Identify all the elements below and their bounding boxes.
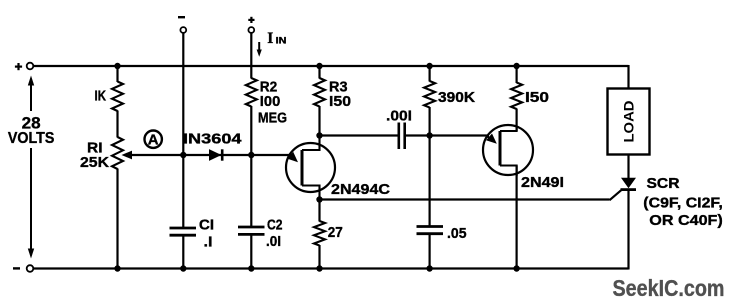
- wire 390K node to UJT2 emitter: [430, 134, 489, 136]
- svg-text:.00I: .00I: [386, 108, 412, 124]
- U1 base2 lead: [302, 136, 320, 151]
- node A wire (R1 wiper to UJT1 emitter): [127, 154, 292, 156]
- terminal circle - left: [27, 265, 34, 272]
- wire SCR gate diagonal: [610, 190, 622, 200]
- wire + terminal down to R2: [250, 33, 252, 79]
- junction top rail / 1K: [114, 63, 120, 69]
- wire C2 to bottom rail: [250, 234, 252, 268]
- svg-text:.I: .I: [204, 234, 213, 250]
- wire node A to C1: [182, 155, 184, 228]
- wire R2 to node A wire: [250, 106, 252, 155]
- junction bottom rail / UJT2 B1: [513, 265, 519, 271]
- svg-text:I00: I00: [260, 94, 281, 110]
- wire node A to C2: [250, 155, 252, 227]
- wire .001 cap to 390K node: [406, 134, 430, 136]
- junction bottom rail / R1: [114, 265, 120, 271]
- wire top rail corner down to load: [627, 65, 629, 89]
- svg-text:I50: I50: [525, 90, 549, 106]
- R1 wiper arrow: [122, 151, 133, 160]
- 28 volts up arrow: [30, 83, 32, 111]
- resistor 1K (IK): [112, 82, 123, 112]
- resistor R2 100 MEG: [246, 78, 257, 107]
- junction node A / R2-C2: [248, 152, 254, 158]
- capacitor C1 plates: [170, 227, 197, 230]
- svg-text:R3: R3: [329, 79, 348, 95]
- svg-text:.0I: .0I: [266, 234, 281, 250]
- svg-text:(C9F, CI2F,: (C9F, CI2F,: [643, 195, 723, 211]
- load box: [608, 89, 650, 155]
- junction bottom rail / 27: [316, 265, 322, 271]
- junction bottom rail / C1: [180, 265, 186, 271]
- svg-text:RI: RI: [87, 140, 103, 156]
- svg-text:IN3604: IN3604: [183, 132, 242, 148]
- U1 base1 lead: [302, 186, 320, 200]
- junction B2 node / R3: [316, 132, 322, 138]
- terminal circle - top: [180, 27, 186, 33]
- svg-text:SeekIC.com: SeekIC.com: [613, 275, 725, 301]
- svg-text:390K: 390K: [438, 90, 476, 106]
- wire UJT1 B1 to 27: [318, 200, 320, 222]
- 28 volts down arrow: [30, 148, 32, 250]
- minus sign top terminal: [178, 16, 185, 18]
- svg-text:.05: .05: [447, 226, 467, 242]
- svg-text:LOAD: LOAD: [620, 101, 636, 143]
- svg-text:I50: I50: [329, 94, 351, 110]
- terminal circle + left: [27, 63, 34, 70]
- junction emitter node / 390K: [426, 132, 432, 138]
- U2 emitter lead: [487, 136, 492, 139]
- wire top rail to 390K: [429, 66, 431, 82]
- minus sign left terminal: [13, 267, 20, 269]
- svg-text:OR C40F): OR C40F): [649, 213, 723, 229]
- capacitor .05 plates: [417, 225, 444, 228]
- wire 390K to emitter node: [429, 107, 431, 136]
- wire top rail to R3: [318, 66, 320, 79]
- U1 base bar: [301, 150, 304, 186]
- svg-text:A: A: [148, 132, 159, 149]
- svg-text:VOLTS: VOLTS: [8, 130, 55, 147]
- svg-text:27: 27: [328, 225, 343, 241]
- wire bottom supply rail: [34, 267, 629, 269]
- capacitor C2 plates: [238, 226, 265, 229]
- wire load to SCR: [627, 154, 629, 179]
- wire .05 to bottom rail: [429, 234, 431, 269]
- transistor U1 2N494C circle: [286, 143, 335, 192]
- junction node A / C1: [180, 152, 186, 158]
- terminal circle + top: [248, 27, 254, 33]
- SCR anode triangle: [621, 178, 636, 188]
- svg-text:IK: IK: [95, 88, 107, 104]
- wire SCR cathode down to bottom rail: [627, 191, 629, 270]
- svg-text:2N49I: 2N49I: [521, 175, 564, 191]
- wire C1 to bottom rail: [182, 235, 184, 268]
- svg-text:C2: C2: [267, 217, 283, 233]
- plus sign left terminal: [15, 65, 22, 67]
- wire 1K to R1: [116, 111, 118, 138]
- svg-text:25K: 25K: [80, 155, 110, 171]
- junction top rail / R3: [316, 63, 322, 69]
- resistor 390K: [424, 81, 435, 108]
- diode 1N3604 cathode bar: [221, 149, 224, 160]
- svg-text:MEG: MEG: [258, 111, 287, 127]
- wire emitter node down to .05: [429, 136, 431, 227]
- resistor 27: [314, 221, 325, 246]
- svg-text:R2: R2: [260, 79, 278, 95]
- svg-text:2N494C: 2N494C: [331, 182, 391, 198]
- junction bottom rail / .05: [426, 265, 432, 271]
- wire top supply rail: [34, 65, 629, 67]
- wire 27 to bottom rail: [318, 245, 320, 269]
- SCR cathode bar: [621, 188, 637, 191]
- capacitor .001 plates: [397, 123, 400, 150]
- resistor 150 (right): [511, 83, 522, 110]
- svg-text:IN: IN: [276, 36, 287, 46]
- svg-text:CI: CI: [199, 217, 214, 233]
- U2 base1 lead: [500, 166, 517, 177]
- junction UJT1 B1 / gate wire: [316, 196, 322, 202]
- U1 emitter lead: [288, 155, 293, 158]
- diode 1N3604 triangle: [209, 149, 221, 161]
- I_IN arrow: [258, 42, 260, 51]
- resistor R3 150: [314, 78, 325, 107]
- junction bottom rail / C2: [248, 265, 254, 271]
- U2 base bar: [499, 131, 502, 166]
- svg-text:I: I: [267, 30, 273, 47]
- wire R1 to bottom rail: [116, 169, 118, 269]
- wire R3 to UJT1 B2 node: [318, 106, 320, 136]
- junction top rail / 150: [513, 63, 519, 69]
- transistor U2 2N491 circle: [483, 125, 533, 175]
- wire top rail to 1K: [116, 66, 118, 82]
- wire - terminal down to node A wire: [182, 33, 184, 155]
- U2 base2 lead: [500, 126, 517, 131]
- junction top rail / 390K: [426, 63, 432, 69]
- wire top rail to 150: [515, 66, 517, 83]
- svg-text:SCR: SCR: [647, 176, 681, 192]
- wire UJT1 B2 node to .001 cap: [320, 134, 399, 136]
- wire UJT2 B1 to bottom rail: [515, 166, 517, 269]
- node A label circle: [145, 131, 162, 148]
- plus sign top terminal: [248, 19, 254, 21]
- wire 150 to UJT2 B2: [515, 109, 517, 132]
- wire UJT1 B1 / SCR gate: [320, 198, 610, 200]
- potentiometer R1 25K: [112, 137, 123, 169]
